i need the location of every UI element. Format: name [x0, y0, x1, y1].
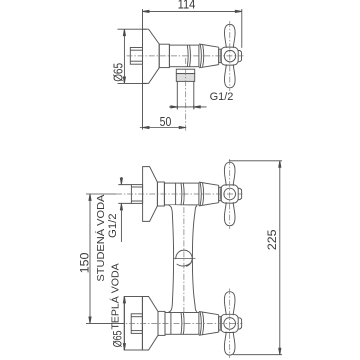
horizontal axis — [127, 55, 244, 57]
dim O65 line — [123, 29, 125, 83]
dim G1/2 top — [176, 105, 178, 109]
bottom valve divider — [170, 313, 172, 335]
dim O65 bottom — [123, 297, 125, 351]
ring section — [159, 44, 169, 67]
bottom coupling nut — [131, 314, 142, 334]
bottom wall cylinder — [124, 297, 142, 351]
bottom cap — [238, 318, 242, 329]
centerlines of top drawing — [127, 21, 244, 131]
top neck ring — [219, 187, 222, 200]
bottom hub — [221, 314, 239, 332]
svg-text:STUDENÁ VODA: STUDENÁ VODA — [94, 195, 107, 282]
svg-text:50: 50 — [160, 114, 172, 129]
top connection axis — [116, 193, 243, 195]
svg-text:114: 114 — [178, 0, 196, 11]
bottom valve arcs — [180, 313, 183, 335]
bottom neck ring — [219, 317, 222, 330]
top handle cone — [199, 182, 219, 206]
tee flange — [176, 69, 194, 73]
top handle lower spoke — [224, 202, 235, 226]
top valve cylinder — [164, 183, 199, 205]
dim 114 — [143, 10, 242, 12]
top hub circle — [224, 188, 236, 200]
bottom escutcheon bell — [142, 297, 158, 351]
down pipe — [177, 81, 194, 109]
dim 150 line — [89, 194, 91, 323]
top spoke — [225, 24, 236, 48]
body circle — [176, 250, 192, 266]
top handle upper spoke — [224, 162, 235, 186]
bottom valve cylinder — [165, 313, 199, 335]
handle cone — [199, 44, 219, 68]
dim O65 extension lines — [118, 28, 147, 30]
handle hub — [221, 47, 238, 65]
valve body cylinder — [169, 45, 199, 67]
dim G1/2 bottom — [120, 177, 122, 185]
top cap — [238, 188, 242, 199]
thread band — [176, 74, 194, 82]
dim 225 line — [279, 161, 281, 355]
svg-text:225: 225 — [265, 229, 279, 250]
bottom handle axis — [229, 289, 231, 359]
dim 50 — [140, 127, 186, 129]
svg-text:Ø65: Ø65 — [111, 330, 125, 347]
svg-text:150: 150 — [78, 252, 92, 273]
handle axis — [229, 21, 231, 91]
vertical body (filled to cover) — [168, 205, 197, 313]
hub inner circle — [224, 50, 235, 61]
centerlines of bottom drawing — [116, 159, 243, 358]
top hub — [221, 185, 239, 203]
wall extension line — [142, 9, 144, 130]
dim 150 extension lines — [86, 193, 116, 195]
svg-text:Ø65: Ø65 — [112, 63, 126, 82]
top valve arcs — [180, 183, 183, 205]
body right edge — [192, 206, 197, 312]
bottom handle cone — [199, 312, 219, 336]
svg-text:G1/2: G1/2 — [107, 213, 119, 238]
bottom handle upper spoke — [224, 292, 235, 316]
neck ring — [219, 49, 222, 62]
dimensions of top drawing — [118, 9, 242, 129]
bottom handle lower spoke — [224, 332, 235, 356]
pipe axis — [185, 58, 187, 131]
escutcheon bell — [143, 29, 160, 83]
top escutcheon bell — [143, 167, 158, 222]
body axis — [183, 196, 185, 332]
top ring section — [157, 182, 164, 206]
dimensions of bottom drawing — [86, 161, 282, 355]
top handle axis — [229, 159, 231, 229]
body circle tick — [173, 257, 195, 259]
top coupling nut — [131, 185, 142, 204]
valve body arcs — [186, 45, 189, 67]
bottom ring section — [158, 311, 165, 335]
body left edge — [168, 205, 174, 313]
texts of top drawing — [112, 0, 234, 129]
hex nut side view — [130, 48, 142, 65]
bottom spoke — [225, 64, 236, 88]
bottom connection axis — [118, 322, 243, 324]
svg-text:G1/2: G1/2 — [210, 91, 234, 103]
body smile arc — [177, 263, 192, 266]
bottom hub circle — [224, 318, 236, 330]
texts of bottom drawing — [78, 195, 280, 348]
top supply pipe stub — [118, 185, 131, 204]
handle cap — [238, 51, 242, 62]
dim 225 extension lines — [229, 160, 282, 162]
top valve divider — [175, 183, 177, 205]
svg-text:TEPLÁ VODA: TEPLÁ VODA — [108, 263, 121, 329]
